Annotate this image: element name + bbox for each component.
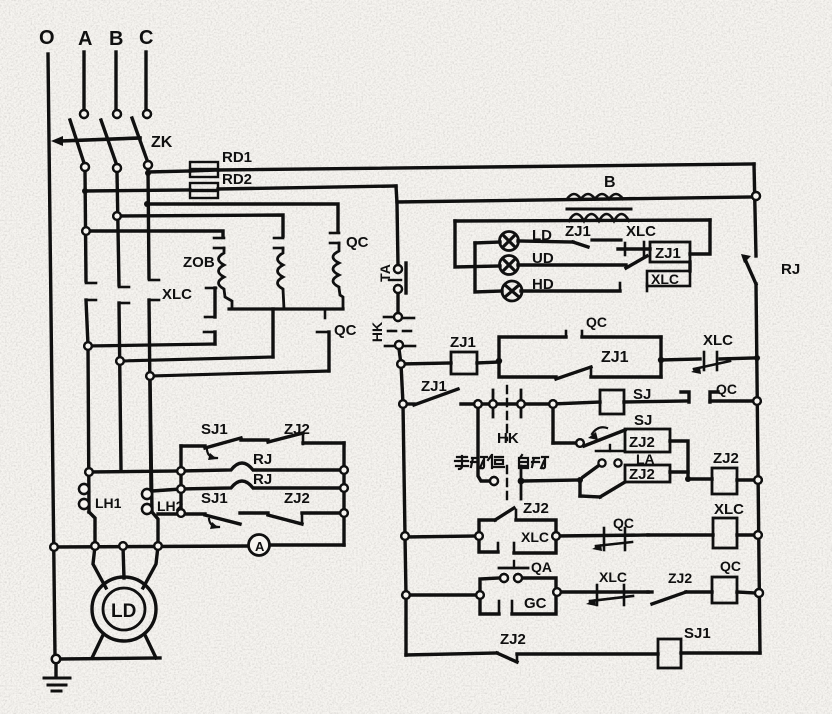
wire A down to LH1 [88,346,89,512]
svg-text:XLC: XLC [651,271,679,287]
label ZJ2 bottom [284,490,310,507]
motor LD [92,577,156,641]
svg-text:ZJ2: ZJ2 [284,490,310,507]
junction lattice1 left [496,358,502,364]
label XLC coil [714,501,744,518]
junction rail rowC [401,532,409,540]
contact UD blade [518,256,647,268]
label XLC lamp [626,223,656,240]
relay coil SJ1 [658,639,681,668]
contactor contact star column [204,288,216,344]
junction rail rowD [402,591,410,599]
wire rowE left [406,653,497,655]
svg-text:XLC: XLC [521,529,549,545]
svg-text:ZOB: ZOB [183,254,215,271]
label HK row2 [497,430,519,447]
svg-text:TA: TA [377,264,393,282]
wire drop row2 to rowA [551,404,554,443]
relay coil ZJ1 [451,352,477,374]
junction block right r3 [340,509,348,517]
label XLC main [162,286,192,303]
svg-text:SJ1: SJ1 [201,490,228,507]
junction A return [84,342,92,350]
junction B bottom [119,542,127,550]
label XLC hold [521,529,549,545]
wire rowD right [737,592,755,593]
switch ZK blade B [101,120,116,163]
label QC lower [334,322,357,339]
motor feed B [123,546,124,578]
svg-text:XLC: XLC [626,223,656,240]
junction block left top [177,467,185,475]
wire O bus vertical [48,54,55,656]
relay box ZJ2 rowA [625,429,670,452]
svg-text:ZJ2: ZJ2 [523,500,549,517]
label SJ rowA [634,412,652,429]
svg-text:HK: HK [497,430,519,447]
label LD [532,227,552,244]
pushbutton manual terminal [490,477,498,485]
svg-text:ZJ1: ZJ1 [655,245,681,262]
wire motor base [60,658,160,659]
svg-text:QC: QC [346,234,369,251]
svg-text:ZJ1: ZJ1 [601,349,629,366]
wire phase A drop to XLC contact [85,171,86,281]
wire lamp loop left inner [475,243,502,292]
motor mount left leg [92,635,103,658]
lamp LD [500,232,519,251]
junction O bottom [50,543,58,551]
contact QC break rowC [556,528,648,551]
heater RJ row2 [181,481,344,489]
contact SJ1 top row [181,438,241,460]
wire rowB left [524,480,580,481]
wire rowC left [405,536,479,537]
junction HK bar1 [489,400,497,408]
fuse RD1 [148,162,218,177]
terminal C lower [144,161,152,169]
node O label [39,27,55,49]
label SJ1 bottom [201,490,228,507]
relay coil ZJ2 [712,468,737,494]
junction rowC mid [552,532,560,540]
junction rail xlc row [754,355,760,361]
wire lamp loop left outer [455,221,500,267]
fuse RD1 label [222,149,252,166]
switch ZK blade A [70,120,84,163]
switch TA [389,263,406,293]
label GC [524,595,547,612]
svg-text:XLC: XLC [714,501,744,518]
junction C tap [144,201,150,207]
relay coil XLC [713,518,737,548]
label TA [377,264,393,282]
lamp UD [500,256,519,275]
contact ZJ2 rowD [648,592,712,604]
label ZJ2 rowE [500,631,526,648]
motor feed C [143,546,158,588]
contact gap coil1 branch [214,238,224,248]
wire rowA left [553,441,580,444]
wire rowC right [737,533,755,536]
wire B tap to coil2 branch [117,215,283,236]
junction rowD left [476,591,484,599]
label auto (hand-drawn glyphs) [519,455,548,468]
contact GC hold rowD [480,592,556,614]
autotransformer coil ZOB phase B [278,248,285,309]
right rail top [754,164,756,256]
label LA [636,451,655,467]
wire C down to LH2 [150,376,152,512]
wire phase B drop to XLC contact [117,172,119,285]
svg-text:ZJ1: ZJ1 [450,334,476,351]
switch ZK label [151,134,173,151]
lamp HD [502,281,522,301]
label XLC rowD [599,569,627,585]
junction C bottom [154,542,162,550]
relay coil QC [712,577,737,603]
pushbutton QA [480,561,556,595]
fuse RD2 [85,183,396,198]
autotransformer coil ZOB phase A [219,248,233,309]
label ZJ2 rowD [668,570,692,586]
contactor QC main contact right [317,309,329,371]
contact ZJ1 self-hold lattice bottom [499,360,661,379]
junction rail row2 [399,400,407,408]
svg-text:QA: QA [531,559,552,575]
relay box ZJ2 rowB [580,465,670,497]
junction block right r1 [340,466,348,474]
junction rail row1 [397,360,405,368]
contactor XLC main contact A [86,283,96,345]
svg-text:C: C [139,27,153,49]
wire LH1 secondary [89,471,181,472]
svg-text:B: B [109,28,123,50]
wire phase C drop to XLC contact [148,169,149,278]
junction rowB [577,477,583,483]
terminal B top [113,110,121,118]
svg-text:LH1: LH1 [95,495,122,511]
label RJ [781,261,800,278]
wire TA to HK [396,293,399,313]
svg-text:RJ: RJ [253,471,272,488]
wire bottom neutral bus [54,545,344,547]
svg-text:ZJ2: ZJ2 [284,421,310,438]
transformer B primary wire [397,197,752,202]
label QC upper [346,234,369,251]
relay block left rail [179,446,182,513]
svg-text:QC: QC [334,322,357,339]
switch ZK blade C [132,118,147,160]
contact XLC lamp [618,242,650,256]
selector dashed link [506,466,508,502]
junction rowD mid [553,588,561,596]
relay coil SJ [600,390,624,414]
contact ZJ2 rowE [497,653,658,662]
label RJ row2 [253,471,272,488]
label ZJ1 coil [450,334,476,351]
relay box XLC lamp [647,271,690,291]
svg-text:XLC: XLC [703,332,733,349]
svg-text:XLC: XLC [599,569,627,585]
junction A bottom [91,542,99,550]
terminal A top [80,110,88,118]
switch HK contact bars [493,386,553,440]
svg-text:QC: QC [716,381,737,397]
label XLC row1 [703,332,733,349]
label QC coil [720,558,741,574]
svg-text:RJ: RJ [253,451,272,468]
svg-text:A: A [78,28,92,50]
svg-text:RD2: RD2 [222,171,252,188]
label QA [531,559,552,575]
wire QC to C return [150,371,329,376]
wire phase C lead-in [144,52,147,110]
svg-text:O: O [39,27,55,49]
junction rail zj2 row [754,476,762,484]
contact XLC break row1 [661,352,753,374]
junction row2 drop [549,400,557,408]
svg-text:ZK: ZK [151,134,173,151]
wire rowB to coil [670,472,712,479]
contact ZJ2 top row [241,433,344,444]
svg-text:A: A [255,539,265,554]
label SJ1 top [201,421,228,438]
label RJ row1 [253,451,272,468]
wire LH2 secondary [152,489,181,491]
contact XLC break rowD [557,585,648,606]
wire lamp boxes link [688,262,691,271]
wire star bus [229,307,343,310]
node B label [109,28,123,50]
svg-text:ZJ2: ZJ2 [668,570,692,586]
wire row1 left [401,363,451,364]
svg-text:QC: QC [720,558,741,574]
junction rail xlc coil row [754,531,762,539]
svg-text:ZJ2: ZJ2 [713,450,739,467]
junction B tap [113,212,121,220]
contactor XLC main contact C [149,280,159,490]
wire phase A lead-in [82,52,85,110]
transformer B secondary winding [569,214,629,221]
wire RD1 to right rail [218,164,754,170]
wire A tap to coil1 branch [86,231,223,236]
node C label [139,27,153,49]
svg-text:QC: QC [586,314,607,330]
wire rowA to rowB [670,441,688,479]
ammeter A [249,535,270,556]
wire star column to A return [88,344,215,346]
wire rowB right [737,478,755,481]
contact RJ thermal [741,254,756,284]
contact ZJ1 row2 [403,389,490,405]
junction lattice1 right [658,357,664,363]
transformer B primary winding [567,194,623,199]
contact gap coil3 branch QC [330,233,339,243]
motor feed A [93,546,106,588]
wire lamp loop right [690,220,710,254]
contact QC in lattice top [499,331,661,361]
wire C jog to bottom bus [152,512,158,545]
svg-text:RJ: RJ [781,261,800,278]
label HK left [369,322,385,342]
svg-text:LD: LD [111,601,136,622]
junction row2 branch [474,400,482,408]
label HD [532,276,554,293]
wire C tap to QC branch [147,204,338,231]
svg-text:GC: GC [524,595,547,612]
wire phase B lead-in [114,52,117,110]
switch HK left [384,313,415,349]
label SJ coil [633,386,651,403]
svg-text:SJ1: SJ1 [684,625,711,642]
heater RJ row1 [181,463,344,471]
junction block left bottom [177,509,185,517]
wire rowE right [681,651,760,654]
wire rowD left [406,593,480,596]
svg-text:XLC: XLC [162,286,192,303]
wire bus drop to B line [271,309,274,357]
svg-text:ZJ2: ZJ2 [500,631,526,648]
label ZJ2 top [284,421,310,438]
label QC lattice [586,314,607,330]
contact gap coil2 branch [274,238,283,248]
junction HK bar2 [517,400,525,408]
junction rings overlay [50,110,763,663]
wire LD row left [475,242,500,243]
junction rail sj row [753,397,761,405]
svg-text:ZJ2: ZJ2 [629,466,655,483]
junction A-LH1 secondary [85,468,93,476]
svg-text:ZJ2: ZJ2 [629,434,655,451]
autotransformer coil phase C [333,243,343,309]
terminal B lower [113,164,121,172]
contact ZJ2 bottom row [240,513,344,524]
selector manual branch [478,404,489,481]
contact QC row2 [624,392,753,402]
current transformer LH2 [142,489,152,514]
label SJ1 coil [684,625,711,642]
wire HD row [521,283,620,291]
contact ZJ2 rowC [479,508,556,536]
junction rowC left [475,532,483,540]
label LH1 [95,495,122,511]
contact SJ1 bottom row [158,514,240,529]
junction block left mid [177,485,185,493]
label UD [532,250,554,267]
wire row1 mid [477,362,499,363]
label ZJ1 row2 [421,378,447,395]
terminal O ground node [52,655,60,663]
motor mount right leg [145,635,156,658]
label B [604,174,616,191]
wire row2 to SJ coil [553,402,600,404]
label ZJ1 lattice [601,349,629,366]
terminal rail qc row [755,589,763,597]
svg-text:B: B [604,174,616,191]
svg-text:SJ1: SJ1 [201,421,228,438]
contactor XLC main contact B [119,287,129,470]
label QC row2 [716,381,737,397]
relay block right rail [342,443,345,545]
svg-text:RD1: RD1 [222,149,252,166]
relay box ZJ1 lamp [650,242,690,262]
svg-text:HK: HK [369,322,385,342]
wire rowC to coil [648,533,713,536]
junction A-RD2 [82,188,88,194]
label ZJ1 lamp [565,223,591,240]
switch ZK tie bar with arrow [51,136,140,146]
terminal C top [143,110,151,118]
svg-text:QC: QC [613,515,634,531]
control left rail [399,349,406,655]
wire RD2 corner to control rail [396,186,398,265]
junction rowB right [685,476,691,482]
contact SJ delayed rowA [584,427,625,446]
junction C-RD1 [145,170,151,176]
transformer B core [567,208,631,211]
label ZOB [183,254,215,271]
junction block right r2 [340,484,348,492]
fuse RD2 label [222,171,252,188]
label QC rowC [613,515,634,531]
junction C return [146,372,154,380]
terminal primary right [752,192,760,200]
contact ZJ1 lamp transfer [518,240,621,247]
junction B return [116,357,124,365]
label ZJ2 rowC [523,500,549,517]
label manual stop (hand-drawn glyphs) [455,455,504,469]
wire lamp loop top [455,220,710,221]
label ZJ2 coil [713,450,739,467]
node A label [78,28,92,50]
svg-text:ZJ1: ZJ1 [421,378,447,395]
pushbutton LA [583,445,624,477]
current transformer LH1 [79,484,89,509]
svg-text:ZJ1: ZJ1 [565,223,591,240]
wire B return line [120,357,273,361]
svg-text:SJ: SJ [634,412,652,429]
junction rowA [576,439,584,447]
wire A jog to bottom bus [89,512,95,545]
ground [44,663,70,691]
label LH2 [157,498,184,514]
terminal A lower [81,163,89,171]
right rail main [756,284,760,653]
junction A tap [82,227,90,235]
selector auto contact [518,466,525,499]
contact XLC hold rowC [479,536,556,553]
